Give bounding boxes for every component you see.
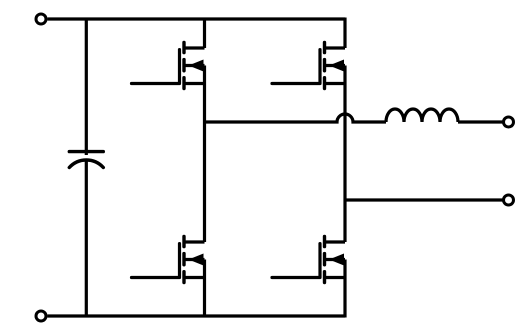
wire left leg (Q1 source to Q2 drain)	[203, 66, 206, 243]
wire mid node A to inductor (with crossover hop)	[205, 114, 387, 122]
terminal T1 (top-left input)	[36, 14, 46, 24]
terminal T4 (lower-right output)	[504, 195, 514, 205]
wire capacitor bottom lead	[85, 160, 88, 318]
wire node B to terminal T4	[345, 198, 504, 201]
wire Q1 drain lead	[203, 19, 206, 48]
transistor Q3 (upper-right MOSFET)	[272, 43, 345, 89]
wire inductor to terminal T3	[458, 120, 504, 123]
wire Q2 source lead	[203, 260, 206, 317]
transistor Q4 (lower-right MOSFET)	[272, 237, 345, 283]
wire Q4 source lead	[343, 260, 346, 318]
transistor Q2 (lower-left MOSFET)	[132, 237, 205, 283]
wire bottom rail	[48, 314, 346, 317]
wire top rail	[48, 17, 346, 20]
transistor Q1 (upper-left MOSFET)	[132, 43, 205, 89]
wire right leg (Q3 source to Q4 drain)	[343, 66, 346, 243]
wire Q3 drain lead	[343, 18, 346, 49]
wire capacitor top lead	[85, 18, 88, 156]
terminal T2 (bottom-left input)	[36, 311, 46, 321]
inductor L1	[386, 109, 458, 122]
terminal T3 (upper-right output)	[504, 117, 514, 127]
capacitor C1	[69, 152, 103, 168]
